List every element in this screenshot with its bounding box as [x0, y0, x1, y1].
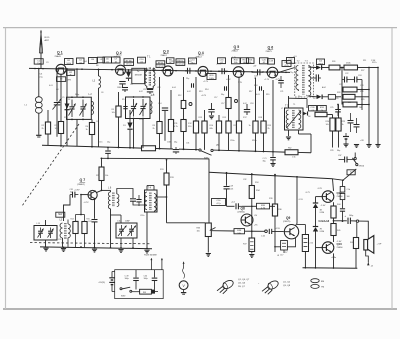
dashed tuning gang line: [22, 124, 79, 206]
svg-text:C17: C17: [214, 97, 217, 99]
wire Q8 base upper network: [227, 205, 235, 207]
svg-text:C11: C11: [143, 89, 146, 91]
wire detector output top: [322, 67, 329, 69]
svg-text:C50: C50: [144, 275, 147, 277]
padder capacitor C36: [116, 223, 137, 238]
svg-text:2k: 2k: [268, 128, 270, 130]
svg-text:C18: C18: [250, 103, 253, 105]
variable capacitor C5 gang section box L2: [67, 97, 92, 119]
electrolytic C41 output: [347, 218, 349, 224]
resistor R3 under Q1: [60, 74, 62, 121]
capacitor C31 base: [72, 192, 74, 198]
svg-text:0.02: 0.02: [139, 91, 143, 93]
wire volume feed vertical: [166, 160, 168, 173]
svg-text:(2SB75): (2SB75): [283, 221, 291, 223]
resistor R24 column: [332, 115, 334, 119]
wire Q11 base: [316, 196, 323, 198]
capacitor C38 coupling: [226, 173, 228, 186]
svg-text:Q1, Q2: Q1, Q2: [283, 282, 291, 284]
svg-text:Q9: Q9: [286, 216, 290, 220]
svg-text:T5: T5: [293, 104, 295, 106]
wire T5 bottom to ground: [288, 130, 290, 136]
capacitor C39: [268, 229, 270, 234]
wire T3 bottom to T5: [288, 97, 307, 99]
transistor Q8: [241, 214, 253, 226]
svg-text:Q 7: Q 7: [80, 178, 86, 182]
wire detector AVC line B2: [101, 157, 210, 160]
wire to L5: [64, 195, 71, 221]
wire right verticals AGC: [368, 68, 370, 145]
diode bias column lower: [313, 226, 318, 228]
ground symbols oscillator: [43, 247, 48, 249]
switch SW1a: [199, 149, 201, 151]
svg-text:C32: C32: [243, 179, 246, 181]
capacitor C23a inside T3: [315, 74, 317, 81]
boxed label above Q6: [282, 61, 291, 67]
resistor R16: [228, 120, 230, 122]
svg-text:1.5k: 1.5k: [292, 157, 296, 159]
svg-text:68k: 68k: [210, 128, 213, 130]
svg-text:R47: R47: [350, 242, 353, 244]
resistor R47 across speaker: [356, 222, 358, 237]
transistor Q11 upper output: [322, 191, 334, 203]
wire L4 bottoms: [133, 119, 135, 148]
capacitor C14: [162, 107, 168, 109]
svg-text:L8: L8: [277, 255, 279, 257]
svg-text:Q 6: Q 6: [268, 46, 274, 50]
svg-text:+5.1V: +5.1V: [264, 79, 270, 81]
svg-text:R12: R12: [178, 95, 181, 97]
wire oscillator bottom rail: [40, 247, 152, 249]
dashed gang coupling line bottom: [30, 243, 150, 244]
svg-text:R29: R29: [361, 99, 364, 101]
resistor R13: [195, 77, 197, 121]
svg-text:1k: 1k: [86, 129, 88, 131]
transistor Q7: [88, 190, 97, 199]
svg-text:Q5, Q6: Q5, Q6: [238, 283, 246, 285]
svg-text:10k: 10k: [326, 124, 329, 126]
svg-text:C6: C6: [101, 92, 103, 94]
svg-text:1N60M: 1N60M: [134, 75, 141, 77]
diode D1: [66, 69, 68, 104]
svg-text:R17: R17: [249, 91, 252, 93]
border frame bottom line: [3, 308, 397, 310]
resistor R2: [47, 110, 49, 122]
wire main lower rail: [42, 145, 142, 148]
svg-text:C13 .02: C13 .02: [177, 64, 184, 66]
resistor R32 horizontal: [315, 112, 327, 116]
svg-text:+0.8a: +0.8a: [331, 257, 337, 259]
capacitor C28: [354, 124, 360, 126]
svg-text:R34: R34: [255, 182, 258, 184]
wire audio bottom rail: [303, 267, 358, 269]
svg-text:R29: R29: [335, 98, 338, 100]
svg-text:C19: C19: [230, 186, 233, 188]
svg-text:Q11: Q11: [337, 191, 343, 195]
resistor R62 in rail: [285, 150, 298, 155]
label box 1N60: [132, 68, 145, 83]
svg-text:10k: 10k: [112, 112, 115, 114]
wire B2 corner down to audio: [208, 159, 210, 223]
svg-text:2SB56: 2SB56: [337, 196, 344, 198]
legend transistor package icon 1: [221, 279, 234, 290]
battery B2 cells: [111, 272, 113, 278]
capacitor C32 emitter: [94, 199, 96, 219]
svg-text:Q 2: Q 2: [116, 51, 122, 55]
svg-text:-4.7V: -4.7V: [84, 202, 90, 204]
svg-text:R11: R11: [363, 60, 366, 62]
wire audio signal line: [212, 230, 235, 232]
capacitor C43 30u on rail: [272, 152, 274, 157]
test point circle TP1: [189, 103, 192, 106]
svg-text:R45: R45: [337, 230, 340, 232]
svg-text:R18: R18: [254, 85, 257, 87]
svg-text:0.04: 0.04: [172, 87, 176, 89]
svg-text:Q5, Q8: Q5, Q8: [283, 285, 291, 287]
svg-text:+0.2V: +0.2V: [201, 95, 207, 97]
resistor R39: [272, 204, 277, 216]
svg-text:R27: R27: [361, 70, 364, 72]
svg-text:+ SP: + SP: [377, 244, 382, 246]
switch SW1b: [356, 164, 358, 166]
svg-text:Q 4: Q 4: [198, 51, 204, 55]
wire T5 top: [288, 96, 290, 108]
resistor R18: [255, 78, 257, 122]
capacitor C15a: [187, 68, 189, 74]
capacitor C19 between Q5 Q6: [257, 69, 259, 75]
svg-text:7M: 7M: [321, 287, 324, 289]
svg-text:C7: C7: [96, 121, 98, 123]
svg-text:0.02: 0.02: [187, 91, 191, 93]
svg-text:-2%: -2%: [254, 225, 258, 227]
resistor R61 in rail: [142, 146, 156, 151]
boxed label R31: [318, 106, 327, 111]
svg-text:+0.9V: +0.9V: [74, 190, 80, 192]
svg-text:C17: C17: [221, 103, 224, 105]
svg-text:T3p: T3p: [290, 72, 293, 74]
resistor R9: [159, 77, 161, 122]
capacitor C25: [335, 109, 341, 111]
svg-text:R44: R44: [337, 204, 340, 206]
feedback column R48 R49 C42: [342, 180, 344, 186]
svg-text:1k: 1k: [342, 124, 344, 126]
border frame left line: [5, 28, 7, 309]
svg-text:0.02: 0.02: [243, 103, 247, 105]
driver transformer T6: [302, 235, 308, 252]
svg-text:SW1b: SW1b: [359, 166, 365, 168]
svg-text:C9: C9: [130, 84, 132, 86]
transistor Q1: [56, 64, 66, 74]
svg-text:10k: 10k: [197, 230, 200, 232]
svg-text:0.01: 0.01: [49, 85, 53, 87]
boxed label MW: [56, 212, 65, 217]
boxed labels above Q2: [124, 59, 134, 62]
svg-text:2-DM: 2-DM: [320, 212, 325, 214]
boxed label C26: [309, 106, 317, 111]
svg-text:1k: 1k: [249, 125, 251, 127]
resistor R25 column: [338, 105, 340, 119]
svg-text:H12N 345BM: H12N 345BM: [144, 255, 157, 257]
wire Q7 collector: [96, 190, 101, 192]
svg-text:2SB75: 2SB75: [266, 51, 273, 53]
svg-text:C17: C17: [284, 252, 287, 254]
resistor R63: [140, 289, 152, 294]
boxed label C16 input: [212, 199, 226, 206]
svg-text:-1.2V: -1.2V: [150, 95, 155, 97]
boxed label C2 row: [89, 58, 98, 64]
svg-text:2k: 2k: [153, 128, 155, 130]
battery module box: [115, 270, 164, 299]
svg-text:Q 3: Q 3: [163, 50, 169, 54]
wire output rail down: [333, 179, 334, 191]
wire diode column to bottom rail: [315, 248, 317, 268]
antenna coupling label box: [34, 59, 43, 64]
electrolytic C30 on rail: [173, 149, 179, 151]
svg-text:+0.4: +0.4: [231, 202, 235, 204]
diode D5 detector bottom: [308, 95, 316, 98]
switch SW2: [120, 288, 122, 290]
arrow feed 1: [150, 258, 152, 270]
transistor Q3: [163, 66, 173, 76]
svg-text:2SA12: 2SA12: [161, 54, 168, 57]
capacitor C40 emitter bypass: [281, 241, 288, 251]
capacitor C37 near SW1b: [344, 157, 346, 163]
wire L1 bottom to ground: [38, 113, 40, 135]
svg-text:R63: R63: [143, 292, 146, 294]
boxed label R1: [65, 59, 74, 65]
electrolytic C50: [154, 270, 156, 278]
capacitor C16 between Q4 Q5: [221, 68, 223, 74]
resistor R15: [218, 115, 220, 121]
oscillator variable capacitor C35 gang box: [34, 226, 57, 241]
capacitor C34 near T4: [136, 199, 141, 201]
wire Q8 collector emitter: [251, 215, 253, 232]
svg-text:det: det: [306, 94, 309, 97]
svg-text:R24: R24: [75, 221, 78, 223]
transistor Q2: [116, 65, 126, 75]
svg-text:10k: 10k: [105, 175, 108, 177]
svg-text:Q8: Q8: [241, 206, 245, 210]
wire output midpoint: [334, 220, 347, 222]
svg-text:2SA49: 2SA49: [55, 55, 62, 58]
svg-text:C13: C13: [157, 87, 160, 89]
wire T4 top leads: [146, 186, 148, 191]
electrolytic C15 rail to AVC line: [107, 148, 109, 151]
resistor R27 150k: [344, 65, 358, 70]
svg-text:(A): (A): [216, 144, 219, 147]
svg-text:-1.5V: -1.5V: [298, 199, 303, 201]
boxed labels between Q2 Q3: [156, 61, 165, 64]
svg-text:2-DM: 2-DM: [320, 231, 325, 233]
svg-text:C 49: C 49: [125, 275, 129, 277]
resistor R29: [343, 94, 355, 99]
capacitor C33: [130, 198, 136, 200]
boxed label R36 1.7k: [257, 203, 270, 209]
wire top supply rail: [29, 68, 290, 72]
additional mid strip caps and labels: [191, 83, 193, 87]
transistor Q9 driver: [284, 225, 298, 239]
resistor R37 top: [251, 174, 253, 186]
svg-text:C21: C21: [280, 91, 283, 93]
svg-text:2.1k: 2.1k: [310, 243, 314, 245]
svg-text:1M: 1M: [348, 102, 351, 104]
wire Q9 emitter: [287, 238, 295, 247]
svg-text:-3.7V: -3.7V: [305, 192, 310, 194]
svg-text:100: 100: [347, 196, 350, 198]
svg-text:1N60: 1N60: [318, 63, 324, 65]
coil L3: [98, 69, 100, 76]
svg-text:+4.5V: +4.5V: [275, 228, 281, 230]
svg-text:4.7µ: 4.7µ: [216, 203, 221, 205]
svg-text:Q10: Q10: [337, 242, 343, 246]
svg-text:Q1, Q4, Q7: Q1, Q4, Q7: [238, 279, 250, 281]
resistor R28: [343, 87, 357, 92]
resistor R23 feed: [101, 158, 103, 167]
resistor R14: [202, 121, 207, 133]
svg-text:R19: R19: [266, 94, 269, 96]
resistor R12: [183, 77, 185, 101]
svg-text:C3: C3: [46, 62, 48, 64]
misc boxed labels above rail: [112, 57, 121, 63]
svg-text:R14: R14: [205, 89, 208, 91]
resistor R11: [170, 90, 172, 120]
svg-text:C22: C22: [345, 73, 348, 75]
resistor R33 feed: [164, 173, 169, 185]
transistor Q6: [267, 67, 278, 78]
resistor R5: [118, 92, 120, 106]
resistor R35b bias divider: [81, 214, 85, 216]
svg-text:R62: R62: [288, 148, 291, 150]
capacitor C22: [344, 77, 346, 83]
svg-text:ROD: ROD: [45, 37, 50, 39]
wire antenna to rail: [40, 64, 42, 69]
svg-text:-0.5V: -0.5V: [226, 79, 231, 81]
trimmer capacitor C4: [56, 69, 58, 102]
capacitor C23: [354, 77, 356, 83]
svg-text:365p: 365p: [75, 94, 79, 96]
svg-text:+1.2V: +1.2V: [203, 81, 209, 83]
svg-text:-2.4V: -2.4V: [321, 205, 326, 207]
svg-text:2k: 2k: [42, 128, 44, 130]
boxed labels right of Q3: [176, 59, 185, 62]
wire audio supply rail: [209, 172, 333, 179]
IF tuned gang box L4: [126, 97, 151, 119]
resistor R34 base bias: [80, 195, 82, 215]
resistor R21: [228, 75, 230, 98]
additional boxed labels filling top band: [138, 57, 146, 63]
svg-text:(2SA52): (2SA52): [77, 183, 85, 186]
boxed label R38: [234, 229, 245, 234]
svg-text:C11b: C11b: [140, 215, 144, 217]
capacitor C21 emitter Q6: [278, 80, 284, 82]
wire T5 right bottom: [298, 130, 300, 134]
svg-text:C.05: C.05: [261, 236, 265, 238]
svg-text:C17: C17: [280, 255, 283, 257]
svg-text:C31: C31: [186, 143, 189, 145]
capacitor C11 under T1: [147, 89, 153, 91]
wire T4 bottom to rail: [146, 212, 148, 248]
svg-text:(2SB54): (2SB54): [238, 211, 246, 213]
svg-text:C24: C24: [358, 75, 361, 77]
svg-text:D5: D5: [313, 98, 315, 100]
svg-text:C37: C37: [338, 155, 341, 157]
svg-text:4.5V(S): 4.5V(S): [99, 282, 106, 284]
resistor R26: [329, 65, 340, 70]
svg-text:1M: 1M: [359, 107, 362, 109]
svg-text:D1: D1: [68, 99, 70, 101]
battery cell B1: [343, 136, 349, 138]
svg-text:C22: C22: [339, 84, 342, 86]
capacitor C17 to ground: [208, 109, 214, 111]
resistor R4: [91, 119, 93, 122]
svg-text:0.05: 0.05: [230, 188, 234, 190]
svg-text:2SB56: 2SB56: [337, 247, 344, 249]
svg-text:C1b: C1b: [347, 189, 350, 191]
transistor Q5: [233, 67, 244, 78]
svg-text:C5: C5: [62, 97, 64, 99]
svg-text:C12 .02: C12 .02: [157, 66, 164, 68]
junction dots on lower rail: [60, 145, 62, 147]
antenna rod ANT: [40, 31, 42, 65]
svg-text:R24: R24: [71, 219, 74, 221]
wire Q9 collector up: [296, 224, 298, 226]
svg-text:C29: C29: [330, 150, 333, 152]
ground pad in battery module: [152, 290, 155, 294]
wire L6 secondary to C33: [117, 189, 133, 199]
legend battery size icon 8M: [311, 279, 319, 283]
svg-text:R26: R26: [332, 61, 335, 63]
svg-text:0.01: 0.01: [256, 94, 260, 96]
svg-text:Q 1: Q 1: [57, 51, 63, 55]
resistor R26b: [328, 95, 335, 100]
wire preamp B- vertical: [274, 175, 276, 204]
svg-text:11AP: 11AP: [125, 220, 130, 223]
svg-text:4.7k: 4.7k: [174, 126, 178, 128]
wire T4 right to detector feed: [157, 196, 167, 198]
svg-text:L7: L7: [281, 108, 283, 110]
speaker SP: [364, 240, 368, 251]
svg-text:-1.2V: -1.2V: [317, 188, 322, 190]
ground symbols lower right: [343, 143, 348, 145]
connector circle J1: [265, 230, 268, 233]
arrow feed 2: [161, 258, 163, 270]
svg-text:10k: 10k: [55, 128, 58, 130]
svg-text:C35: C35: [58, 239, 61, 241]
ferrite rod antenna coil L1: [38, 69, 40, 97]
electrolytic C49: [135, 270, 137, 278]
border frame right line: [391, 28, 393, 309]
diode D3: [129, 110, 131, 123]
svg-text:R5: R5: [122, 99, 124, 101]
resistor R45: [331, 224, 336, 236]
test point circle TP2: [235, 100, 238, 103]
meter V: [183, 262, 185, 268]
transistor Q10 lower output: [322, 242, 334, 254]
capacitor C9: [119, 81, 125, 83]
boxed label near SW1b: [347, 170, 355, 175]
boxed label C3b below Q1: [57, 77, 66, 82]
svg-text:+3V: +3V: [360, 140, 364, 142]
resistor R44: [333, 202, 335, 206]
svg-text:Q 5: Q 5: [234, 45, 240, 49]
wire Q7 base node: [80, 194, 82, 196]
svg-text:C14: C14: [158, 103, 161, 105]
diode D4 detector top: [308, 66, 316, 69]
svg-text:R25: R25: [89, 221, 92, 223]
svg-text:2B, Q7: 2B, Q7: [238, 286, 246, 288]
boxed label C6: [103, 57, 112, 63]
svg-text:D6: D6: [308, 116, 310, 118]
